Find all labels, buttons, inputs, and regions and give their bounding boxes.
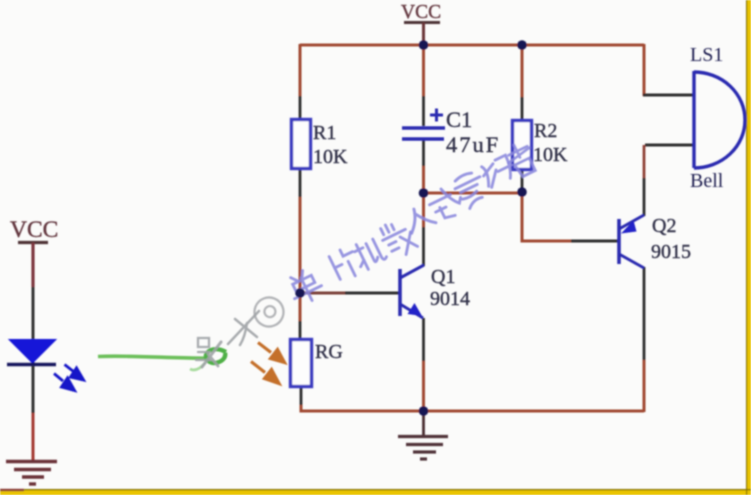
- wire Q2 collector lower (red): [643, 360, 646, 412]
- svg-text:VCC: VCC: [10, 217, 58, 243]
- watermark char 头 (gray): [196, 338, 221, 367]
- wire LS1 bottom pin: [645, 144, 694, 147]
- LED emission arrows: [54, 365, 84, 391]
- wire left branch upper (red): [299, 44, 302, 96]
- wire Q2 emitter pin: [643, 178, 646, 216]
- wire RG top pin: [299, 321, 302, 340]
- wire Q1 emitter pin: [422, 318, 425, 361]
- wire Q1 base pin: [345, 292, 399, 295]
- watermark char 单: [285, 266, 325, 307]
- svg-text:R1: R1: [313, 122, 336, 144]
- power VCC left symbol: [10, 217, 58, 287]
- wire node to RG (red): [299, 293, 302, 321]
- watermark char 者: [503, 139, 540, 179]
- svg-text:Q2: Q2: [652, 215, 676, 237]
- node R2 top junction: [517, 40, 527, 50]
- watermark char 式: [426, 183, 467, 223]
- node R2 bottom junction: [517, 187, 527, 197]
- watermark char 好: [480, 155, 517, 189]
- wire center VCC drop (red): [422, 45, 425, 96]
- wire C1 bottom pin: [422, 140, 425, 166]
- wire R1 to base node: [299, 197, 302, 294]
- node mid C1 junction: [419, 188, 429, 198]
- node ground junction: [419, 406, 429, 416]
- border frame bottom: [0, 489, 751, 495]
- watermark char 片: [329, 245, 363, 282]
- svg-text:10K: 10K: [533, 144, 568, 166]
- wire Q1 collector pin: [422, 227, 425, 266]
- wire Q1 emitter to ground rail: [422, 361, 425, 411]
- resistor R1: [292, 120, 349, 169]
- svg-text:9015: 9015: [651, 241, 691, 263]
- wire bell feed (red): [643, 44, 646, 96]
- svg-text:R2: R2: [534, 120, 557, 142]
- svg-text:Q1: Q1: [431, 266, 455, 288]
- watermark char 嵌: [377, 216, 418, 261]
- svg-text:LS1: LS1: [690, 44, 723, 66]
- svg-text:10K: 10K: [313, 146, 348, 168]
- wire bottom rail left: [301, 405, 423, 411]
- svg-text:RG: RG: [315, 341, 343, 363]
- watermark char 爱: [451, 169, 490, 211]
- svg-text:VCC: VCC: [401, 2, 441, 23]
- ground center: [398, 411, 448, 459]
- wire C1 to mid node: [422, 166, 425, 194]
- wire R1 top pin: [299, 96, 302, 120]
- capacitor C1: [402, 107, 500, 157]
- wire Q2 base pin: [571, 240, 619, 243]
- wire C1 top pin: [422, 96, 425, 126]
- wire LED to ground (red): [32, 413, 35, 461]
- svg-text:Bell: Bell: [690, 170, 724, 192]
- wire bottom rail right: [423, 410, 644, 413]
- wire Q2 collector pin: [643, 267, 646, 360]
- wire RG bottom pin: [300, 386, 303, 405]
- svg-text:47uF: 47uF: [446, 132, 500, 157]
- wire R2 bottom pin: [521, 169, 524, 190]
- border frame right: [746, 0, 751, 495]
- resistor RG (photoresistor): [291, 340, 343, 387]
- light arrows onto RG: [251, 343, 285, 384]
- LED D1: [7, 287, 56, 413]
- watermark char 机: [351, 235, 388, 272]
- watermark char 条 (gray): [228, 311, 259, 345]
- svg-text:C1: C1: [446, 107, 472, 132]
- speaker LS1 (Bell): [690, 44, 745, 192]
- transistor Q1 (NPN 9014): [400, 265, 470, 318]
- wire top rail: [300, 44, 644, 47]
- transistor Q2 (PNP 9015): [619, 215, 691, 268]
- svg-text:9014: 9014: [430, 288, 470, 310]
- node Q1 base junction: [295, 288, 305, 298]
- wire R2 node to Q2 base: [522, 192, 571, 241]
- wire mid node to Q1 (red): [422, 193, 425, 227]
- ground left: [6, 462, 57, 485]
- resistor R2: [513, 120, 569, 170]
- annotation green arrow: [98, 349, 226, 370]
- wire LS1 to Q2 emitter upper (dark red): [643, 145, 646, 178]
- wire R2 top (red): [521, 44, 524, 97]
- wire R1 bottom pin: [299, 168, 302, 197]
- watermark char 入: [403, 203, 436, 234]
- power VCC top symbol: [401, 2, 441, 45]
- wire base node stub: [299, 292, 345, 295]
- watermark char @ (gray): [250, 293, 288, 331]
- node VCC-top junction: [419, 40, 429, 50]
- wire mid rail: [424, 192, 523, 195]
- wire R2 top pin: [521, 97, 524, 121]
- wire LS1 top pin: [643, 94, 694, 97]
- watermark 头条@单片机嵌入式爱好者 (stroke approximation): [196, 139, 539, 367]
